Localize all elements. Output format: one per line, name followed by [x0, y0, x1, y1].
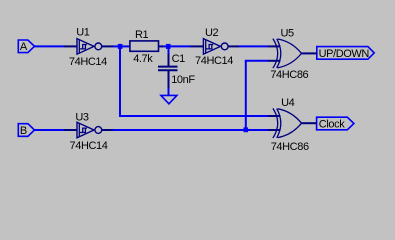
- svg-text:A: A: [20, 41, 28, 53]
- wires: [34, 45, 269, 130]
- svg-text:10nF: 10nF: [171, 74, 195, 86]
- xor gate U5 74HC86: [268, 39, 317, 69]
- svg-text:Clock: Clock: [319, 118, 345, 130]
- inverter U2 74HC14: [190, 39, 239, 55]
- svg-text:B: B: [20, 125, 27, 137]
- svg-text:U2: U2: [205, 27, 219, 39]
- wire A tag to U1: [34, 45, 65, 47]
- capacitor C1: [158, 54, 178, 88]
- wire node J3 up: [245, 61, 247, 130]
- svg-text:R1: R1: [135, 29, 149, 41]
- junction node J2: [166, 44, 171, 49]
- svg-text:74HC14: 74HC14: [70, 140, 108, 152]
- wire U1 output to node J1: [113, 45, 120, 47]
- input tag B: [18, 124, 34, 137]
- svg-text:74HC14: 74HC14: [69, 56, 107, 68]
- wire node J1 down: [119, 45, 121, 116]
- wire J2 to U2: [170, 45, 191, 47]
- inverter U3 74HC14: [64, 122, 113, 138]
- input tag A: [18, 40, 34, 53]
- wire R1 to J2: [162, 45, 168, 47]
- svg-text:U3: U3: [75, 112, 89, 124]
- svg-text:U1: U1: [76, 27, 90, 39]
- wire J1 to R1: [121, 45, 130, 47]
- svg-text:74HC86: 74HC86: [270, 69, 308, 81]
- xor gate U4 74HC86: [268, 108, 317, 138]
- svg-text:C1: C1: [172, 53, 186, 65]
- svg-text:4.7k: 4.7k: [133, 53, 153, 65]
- wire C1 to ground: [168, 87, 170, 95]
- junction node J3: [244, 127, 249, 132]
- svg-text:U4: U4: [281, 97, 295, 109]
- svg-text:UP/DOWN: UP/DOWN: [319, 48, 370, 60]
- junction node J1: [118, 44, 123, 49]
- svg-text:74HC86: 74HC86: [271, 141, 309, 153]
- wire across to U4 input A: [119, 115, 269, 117]
- wire to U5 input B: [245, 60, 269, 62]
- wire J2 down to C1: [168, 45, 170, 55]
- resistor R1: [130, 41, 163, 51]
- wire B tag to U3: [34, 129, 65, 131]
- inverter U1 74HC14: [64, 39, 113, 55]
- svg-text:U5: U5: [280, 27, 294, 39]
- svg-text:74HC14: 74HC14: [195, 55, 233, 67]
- output tag UP/DOWN: [317, 47, 374, 60]
- ground: [161, 95, 177, 103]
- wire U3 output to U4 input B: [113, 129, 269, 131]
- output tag Clock: [317, 117, 354, 130]
- wire U2 output to U5 input A: [239, 45, 269, 47]
